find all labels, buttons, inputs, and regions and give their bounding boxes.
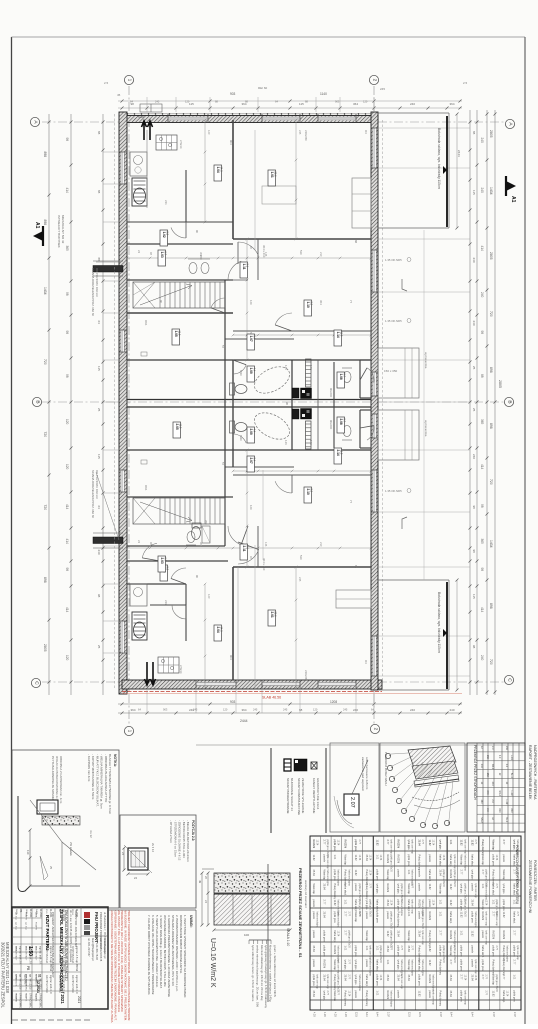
svg-text:tynk cem-wap: tynk cem-wap [337,960,340,975]
svg-text:88: 88 [480,374,484,378]
interior wall y467 stub [225,466,294,468]
svg-text:1.04: 1.04 [216,167,220,173]
svg-text:24: 24 [137,250,141,254]
legend symbol: new walls [284,759,291,771]
svg-text:2.77: 2.77 [386,840,389,845]
witness x255 lower [254,545,256,688]
svg-text:11.82: 11.82 [428,884,431,891]
svg-text:12.34: 12.34 [484,900,486,906]
svg-text:Pokoj dzienny: Pokoj dzienny [502,960,505,976]
room label 2.04 [214,625,222,641]
svg-text:farba akryl.: farba akryl. [344,884,347,897]
svg-text:farba akryl.: farba akryl. [354,900,357,913]
svg-text:RAZEM: RAZEM [449,931,452,940]
room label 2.09 [247,427,255,443]
svg-text:12.5: 12.5 [418,1012,421,1017]
windows top wall [168,117,208,121]
closet wall x318 [317,360,319,450]
svg-text:plytki gres: plytki gres [502,900,505,912]
insulation dashed outline [114,114,116,689]
svg-text:240x150: 240x150 [304,130,308,141]
svg-text:PROJEKT ARCHITEKTONICZNO-BUDOW: PROJEKT ARCHITEKTONICZNO-BUDOWLANY [51,912,55,978]
svg-text:BL-1: BL-1 [510,773,513,779]
svg-text:Pokoj dzienny: Pokoj dzienny [396,912,399,928]
svg-text:720: 720 [43,505,47,511]
svg-text:tynk cem-wap: tynk cem-wap [368,946,371,961]
svg-text:1.01: 1.01 [344,946,347,951]
svg-text:szklo hartowane 2x8mm: szklo hartowane 2x8mm [365,757,369,790]
svg-text:OPRACOWAL: OPRACOWAL [39,993,42,1009]
svg-text:plytki gres: plytki gres [333,840,336,852]
svg-text:110: 110 [26,850,30,855]
entrance niche top unit [359,360,361,398]
outer wall right (hatched) [371,112,378,690]
svg-text:2.77: 2.77 [347,912,349,917]
svg-text:panele: panele [312,931,315,939]
svg-text:RAZEM: RAZEM [312,840,315,849]
svg-text:1.01: 1.01 [439,900,442,905]
svg-text:PODPIS: PODPIS [35,993,37,1002]
svg-text:90: 90 [195,575,199,579]
svg-text:120: 120 [223,708,228,712]
svg-text:wycieraczka: wycieraczka [424,352,428,369]
staircase upper unit [133,282,225,308]
svg-text:88: 88 [472,131,476,135]
roof build-up hatched band [408,746,456,768]
svg-text:11.82: 11.82 [375,840,378,847]
svg-text:farba akryl.: farba akryl. [333,931,336,944]
lintel table [467,743,525,832]
svg-text:farba emulsyjna: farba emulsyjna [358,975,361,992]
svg-text:2.77: 2.77 [512,931,515,936]
section marker A1 right [506,181,516,191]
box A border (parapet detail panel) [12,750,119,908]
svg-text:farba emulsyjna: farba emulsyjna [347,870,350,887]
axis line 2 (vertical dash-dot) [373,86,375,726]
svg-text:farba akryl.: farba akryl. [375,900,378,913]
svg-text:25.64: 25.64 [418,931,421,938]
svg-text:farba emulsyjna: farba emulsyjna [337,912,340,929]
svg-text:2.77: 2.77 [358,840,360,845]
kitchen hob lower [158,657,179,673]
svg-text:farba emulsyjna: farba emulsyjna [326,870,329,887]
svg-text:25.64: 25.64 [323,912,326,919]
svg-text:NIP 123-456-78-90: NIP 123-456-78-90 [95,938,99,961]
svg-text:12.34: 12.34 [379,855,381,861]
svg-text:farba akryl.: farba akryl. [491,884,494,897]
svg-text:Balustrada szklana, wys. balus: Balustrada szklana, wys. balustrady 110c… [437,592,441,653]
svg-text:245: 245 [298,577,302,582]
svg-text:4.20: 4.20 [344,1012,347,1017]
svg-text:NB-2: NB-2 [491,764,494,770]
svg-text:2805: 2805 [489,130,493,138]
svg-text:zadaszenie nad wejsciem: zadaszenie nad wejsciem [361,757,365,792]
box B border (beam detail panel) [120,815,196,908]
svg-text:90x200: 90x200 [329,388,333,398]
svg-text:UWAGA! DO PROJEKTU NIE WOLNO W: UWAGA! DO PROJEKTU NIE WOLNO WPROWADZAC … [110,910,114,1023]
svg-text:plytki gres: plytki gres [396,900,399,912]
interior wall y279 [127,279,233,281]
svg-text:farba emulsyjna: farba emulsyjna [421,960,424,977]
svg-text:plytki gres 30x30: plytki gres 30x30 [453,946,456,964]
windows bottom wall [196,682,236,686]
svg-text:6.7: 6.7 [164,252,168,256]
svg-text:tynk gips.: tynk gips. [354,960,357,971]
svg-text:11.82: 11.82 [491,991,494,998]
svg-text:25.64: 25.64 [396,931,399,938]
svg-text:245: 245 [155,100,160,104]
svg-text:tynk cem-wap: tynk cem-wap [421,931,424,946]
svg-text:PODPIS: PODPIS [25,993,27,1002]
room label 1.09 [247,366,255,382]
door arc lower left [142,543,157,558]
svg-text:RAZEM: RAZEM [428,975,431,984]
svg-text:2.01: 2.01 [270,612,274,618]
svg-text:tynk gips.: tynk gips. [375,884,378,895]
svg-text:2.77: 2.77 [449,960,452,965]
svg-text:plytki gres: plytki gres [460,900,463,912]
door arc entr lower [367,426,374,441]
interior wall y331 right [233,330,371,332]
boiler lower kitchen [132,612,147,640]
svg-text:903: 903 [230,92,236,96]
wc by entrance lower [343,426,351,437]
svg-text:L-19: L-19 [505,799,508,804]
bottom dimension lines [118,703,462,705]
svg-text:2444: 2444 [457,150,461,157]
witness lines above top wall [146,97,148,112]
svg-text:ARCHITEKTURA: ARCHITEKTURA [71,975,74,993]
axis marker 1 [124,726,133,735]
svg-text:1.01: 1.01 [386,960,389,965]
svg-text:14.3: 14.3 [220,167,224,173]
axis marker 2 [369,75,378,84]
svg-text:1.11: 1.11 [242,264,246,270]
svg-text:11.8: 11.8 [340,450,344,455]
svg-text:farba emulsyjna: farba emulsyjna [389,991,392,1008]
svg-text:POMIESZCZEN - PARTER: POMIESZCZEN - PARTER [533,860,537,901]
svg-text:57: 57 [221,462,225,466]
svg-text:2.05: 2.05 [175,424,179,430]
svg-text:panele: panele [323,855,326,863]
svg-text:1.01: 1.01 [439,912,442,917]
room label 2.08 [337,417,345,433]
axis marker B [504,397,513,406]
svg-text:30/2021 RZUT PARTERU ZESPOL: 30/2021 RZUT PARTERU ZESPOL [1,942,6,1009]
svg-text:tynk gips.: tynk gips. [407,840,410,851]
left wall protrusion upper (existing bldg joint) [93,266,123,273]
kitchen sink lower [130,584,147,606]
svg-text:plytki gres 30x30: plytki gres 30x30 [463,900,466,918]
svg-text:720: 720 [489,479,493,485]
svg-text:903: 903 [229,140,233,145]
svg-text:tynk cem-wap: tynk cem-wap [516,946,519,961]
svg-text:720: 720 [489,659,493,665]
svg-text:12.34: 12.34 [506,991,508,997]
svg-text:GRAWITACYJNE 14x14: GRAWITACYJNE 14x14 [316,778,320,810]
svg-text:Wiatrolap: Wiatrolap [365,931,368,942]
svg-text:plytki gres: plytki gres [354,946,357,958]
svg-text:plytki gres 30x30: plytki gres 30x30 [495,975,498,993]
witness line x238 bottom [237,567,239,680]
svg-text:11.9: 11.9 [178,331,182,336]
svg-text:panele: panele [312,912,315,920]
svg-text:fi110: fi110 [239,435,243,441]
svg-text:tynk cem-wap: tynk cem-wap [326,975,329,990]
svg-text:tynk cem-wap: tynk cem-wap [432,991,435,1006]
svg-text:2.2: 2.2 [310,302,314,306]
svg-text:11: 11 [37,974,41,978]
svg-text:SCIANY KONSTRUKCYJNE: SCIANY KONSTRUKCYJNE [297,778,301,815]
svg-text:98: 98 [97,594,101,598]
svg-text:farba emulsyjna: farba emulsyjna [316,912,319,929]
axis marker C [504,675,513,684]
svg-text:510: 510 [299,555,303,560]
svg-text:414: 414 [480,246,484,252]
svg-text:Wiatrolap: Wiatrolap [323,870,326,881]
svg-text:upr. MA/123/02: upr. MA/123/02 [29,974,32,990]
svg-text:farba akryl.: farba akryl. [470,855,473,868]
svg-text:12.2021: 12.2021 [36,980,40,993]
svg-text:farba akryl.: farba akryl. [439,855,442,868]
svg-text:RAZEM: RAZEM [449,870,452,879]
top dimension lines [118,100,462,102]
svg-text:414: 414 [65,188,69,194]
svg-text:2.5: 2.5 [463,81,468,85]
svg-text:ZESTAWIENIE POWIERZCHNI: ZESTAWIENIE POWIERZCHNI [528,860,532,913]
svg-text:RAZEM: RAZEM [396,840,399,849]
svg-text:plytki gres: plytki gres [333,912,336,924]
legend panel borders [270,748,272,833]
svg-text:120: 120 [313,708,318,712]
panel divider top of bottom section [196,744,525,746]
svg-text:farba akryl.: farba akryl. [481,946,484,959]
svg-text:1.02: 1.02 [162,232,166,238]
svg-text:25: 25 [472,408,476,412]
svg-text:2.77: 2.77 [389,946,391,951]
svg-text:240: 240 [480,764,483,769]
svg-text:plytki gres: plytki gres [323,931,326,943]
svg-text:Wiatrolap: Wiatrolap [312,884,315,895]
svg-text:Wiatrolap: Wiatrolap [344,855,347,866]
beam dims [123,848,125,870]
svg-text:DWULOKALOWY W ZABUDOWIE BLIZNI: DWULOKALOWY W ZABUDOWIE BLIZNIACZEJ [64,910,68,981]
parapet hatch band [42,816,80,825]
svg-text:364 x 210: 364 x 210 [262,245,266,258]
svg-text:1.08: 1.08 [339,374,343,380]
svg-text:NR RYS.: NR RYS. [23,974,27,985]
svg-text:88: 88 [97,190,101,194]
svg-text:A1: A1 [510,196,516,203]
svg-text:Wiatrolap: Wiatrolap [407,884,410,895]
svg-text:panele: panele [386,912,389,920]
svg-text:903: 903 [230,700,236,704]
svg-text:146: 146 [309,365,313,370]
svg-text:Pokoj dzienny: Pokoj dzienny [333,975,336,991]
svg-text:ZESPOL MIESZKALNY JEDNORODZINN: ZESPOL MIESZKALNY JEDNORODZINNY [59,909,64,992]
balcony lower outline [378,579,449,581]
axis marker B [32,397,41,406]
svg-text:plytki gres: plytki gres [407,855,410,867]
svg-text:120: 120 [249,505,253,510]
svg-text:2.77: 2.77 [481,975,484,980]
svg-text:plytki gres: plytki gres [491,855,494,867]
svg-text:NA BUDOWIE. W RAZIE WATPLIWOSC: NA BUDOWIE. W RAZIE WATPLIWOSCI SKONTAKT… [124,910,128,1021]
svg-text:ISTNIEJACY BUDYNEK: ISTNIEJACY BUDYNEK [57,215,61,248]
svg-text:11.82: 11.82 [418,991,421,998]
svg-text:tynk gips.: tynk gips. [344,960,347,971]
svg-text:plytki gres: plytki gres [460,946,463,958]
svg-text:Pokoj dzienny: Pokoj dzienny [333,884,336,900]
flashing hook profile [18,796,30,891]
svg-text:tynk cem-wap: tynk cem-wap [400,975,403,990]
svg-text:WG USTAWY Z DN. 4 LUTEGO 1994: WG USTAWY Z DN. 4 LUTEGO 1994 R. O PRAWI… [117,910,121,1012]
svg-text:4.20: 4.20 [323,1012,326,1017]
svg-text:414: 414 [480,607,484,613]
svg-text:plytki gres 30x30: plytki gres 30x30 [389,912,392,930]
svg-text:2.77: 2.77 [344,931,347,936]
svg-text:1.09: 1.09 [249,368,253,374]
svg-text:49: 49 [198,880,202,884]
svg-text:12.34: 12.34 [442,855,444,861]
svg-text:11.82: 11.82 [470,931,473,938]
svg-text:150: 150 [498,808,501,813]
svg-text:L-19: L-19 [510,755,513,760]
svg-text:90: 90 [159,300,163,304]
svg-text:25.64: 25.64 [449,975,452,982]
svg-text:2.77: 2.77 [439,931,442,936]
below table row [310,1009,521,1011]
svg-text:260: 260 [199,255,203,260]
svg-text:146: 146 [309,440,313,445]
svg-text:1.01: 1.01 [375,855,378,860]
svg-text:Wiatrolap: Wiatrolap [491,840,494,851]
svg-text:OK1: OK1 [144,320,148,326]
svg-text:245: 245 [253,708,258,712]
svg-text:5.2: 5.2 [166,567,170,571]
interior wall y339 stub [225,338,294,340]
svg-text:OK1: OK1 [144,485,148,491]
svg-text:1208: 1208 [330,700,337,704]
interior wall y546 [127,545,225,547]
svg-text:POKREWNYCH (DZ.U. 2019 POZ. 12: POKREWNYCH (DZ.U. 2019 POZ. 1231). WSZEL… [120,910,124,1012]
svg-text:1.01: 1.01 [407,912,410,917]
svg-text:6.7: 6.7 [164,558,168,562]
S1 material list bracket [249,939,271,941]
svg-text:4.20: 4.20 [312,1012,315,1017]
room label 2.02 [160,565,168,581]
outer wall top (hatched) [122,113,378,115]
svg-text:2.77: 2.77 [502,840,505,845]
svg-text:12.34: 12.34 [358,855,360,861]
svg-text:panele: panele [481,931,484,939]
svg-text:1434: 1434 [489,187,493,195]
svg-text:14.3: 14.3 [220,627,224,633]
svg-text:11.82: 11.82 [333,900,336,907]
interior wall y450 full [127,449,371,451]
svg-text:120: 120 [363,100,368,104]
svg-text:240: 240 [450,708,455,712]
svg-text:245: 245 [343,708,348,712]
svg-text:SKALA: SKALA [25,909,28,917]
hall wall x258 top [257,239,259,280]
svg-text:898: 898 [489,423,493,429]
svg-text:tynk cem-wap: tynk cem-wap [495,912,498,927]
witness line x263 [262,470,264,560]
svg-text:2.77: 2.77 [344,912,347,917]
svg-text:mgr inz. arch. C.D.: mgr inz. arch. C.D. [75,975,78,995]
svg-text:150 x 350: 150 x 350 [384,369,398,373]
svg-text:2x fi 12: 2x fi 12 [151,843,155,852]
svg-text:panele: panele [354,991,357,999]
svg-text:farba akryl.: farba akryl. [365,975,368,988]
svg-text:2.77: 2.77 [347,960,349,965]
svg-text:BL-1: BL-1 [505,817,508,823]
svg-text:241: 241 [164,600,168,605]
svg-text:364 x 210: 364 x 210 [262,558,266,571]
svg-text:RAZEM: RAZEM [491,931,494,940]
door arc room lower [275,481,292,493]
svg-text:11.82: 11.82 [460,912,463,919]
svg-text:mgr inz. arch. J.K.: mgr inz. arch. J.K. [19,946,22,965]
door arc hall upper [238,242,259,257]
svg-text:plytki gres: plytki gres [375,975,378,987]
svg-text:PRZEKROJ PRZEZ DACH: PRZEKROJ PRZEZ DACH [384,752,388,786]
svg-text:tynk gips.: tynk gips. [460,884,463,895]
svg-text:1.01: 1.01 [365,946,368,951]
svg-text:tynk cem-wap: tynk cem-wap [474,884,477,899]
room label 1.10 [304,300,312,316]
svg-text:NOTKA:: NOTKA: [113,754,117,767]
svg-text:2.77: 2.77 [484,975,486,980]
interior wall y313 [127,312,233,314]
svg-text:farba akryl.: farba akryl. [428,870,431,883]
svg-text:RAZEM: RAZEM [386,855,389,864]
balcony upper outline [378,112,449,114]
svg-text:L-19: L-19 [510,791,513,796]
svg-text:panele: panele [418,912,421,920]
svg-text:panele: panele [470,960,473,968]
svg-text:2.77: 2.77 [411,946,413,951]
svg-text:NB-2: NB-2 [498,791,501,797]
svg-text:98: 98 [480,504,484,508]
entrance door break upper [373,372,377,396]
svg-text:ARCHITEKTURA: ARCHITEKTURA [45,975,48,993]
svg-text:2.07: 2.07 [249,458,253,464]
svg-text:11.2021: 11.2021 [29,909,32,918]
svg-text:245: 245 [283,708,288,712]
svg-text:24: 24 [137,540,141,544]
windows right wall [373,128,377,168]
svg-text:2.77: 2.77 [368,884,370,889]
svg-text:120: 120 [65,419,69,425]
svg-text:12.34: 12.34 [368,855,370,861]
witness line x424 [423,230,425,580]
svg-text:365: 365 [480,419,484,425]
svg-text:240: 240 [472,258,476,263]
svg-text:2.07: 2.07 [492,1012,495,1017]
svg-text:12.34: 12.34 [474,975,476,981]
svg-text:45: 45 [117,93,121,97]
svg-text:Wiatrolap: Wiatrolap [481,900,484,911]
svg-text:365: 365 [65,246,69,252]
svg-text:farba emulsyjna: farba emulsyjna [474,912,477,929]
svg-text:25.64: 25.64 [407,975,410,982]
svg-text:O3: O3 [364,130,368,134]
interior wall y497 [127,496,233,498]
witness lines below bottom wall [146,689,148,713]
svg-text:farba akryl.: farba akryl. [512,884,515,897]
